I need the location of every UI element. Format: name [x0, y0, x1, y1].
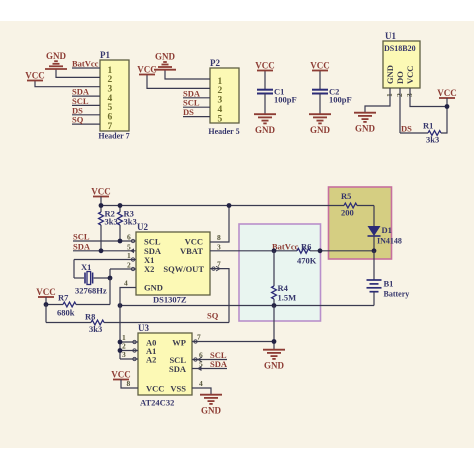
net label SCL (U2) — [73, 232, 90, 242]
resistor R6 470K — [297, 242, 374, 266]
pin number 8 (U2 VCC) — [217, 233, 221, 242]
net label SCL (P1) — [72, 96, 89, 106]
wire P1 pin7 SQ — [72, 123, 100, 125]
svg-text:680k: 680k — [57, 308, 75, 318]
pin symbol (U3 SCL) — [194, 357, 202, 362]
junction (GND rail/R4) — [272, 303, 277, 308]
pin number 2 (U2 X2) — [127, 261, 131, 270]
junction (tie/A1) — [118, 348, 123, 353]
ground GND (WP) — [263, 350, 285, 359]
pin symbol (U3 A0) — [133, 340, 136, 343]
resistor R2 3k3 — [99, 206, 118, 251]
resistor R1 3k3 — [423, 121, 441, 145]
wire SCL line — [73, 240, 136, 242]
svg-text:DS: DS — [183, 107, 194, 117]
pin number 1 (U3 A0) — [122, 333, 126, 342]
header P1 — [98, 50, 129, 141]
wire U3 A0 pin — [120, 341, 138, 343]
svg-text:7: 7 — [108, 122, 113, 132]
pin number 1 (U1 GND) — [385, 93, 394, 97]
wire P2 pin1 to GND — [165, 70, 210, 79]
junction (rail/U2 VCC) — [227, 203, 232, 208]
junction (VCC/R2) — [99, 203, 104, 208]
svg-text:B1: B1 — [384, 279, 394, 289]
pin number 3 (U1 VCC) — [405, 93, 414, 97]
svg-text:R7: R7 — [58, 293, 69, 303]
wire SQW/OUT pin 7 — [210, 269, 229, 323]
junction (R6 output) — [318, 248, 323, 253]
ground GND (U3 VSS) — [200, 395, 222, 404]
svg-text:3k3: 3k3 — [105, 217, 118, 227]
IC U1 DS18B20 — [383, 31, 420, 88]
svg-text:100pF: 100pF — [274, 95, 297, 105]
power VCC (P1) — [25, 71, 45, 81]
svg-text:8: 8 — [217, 233, 221, 242]
wire P2 pin5 DS — [183, 116, 210, 118]
wire crystal node down to R7 — [109, 278, 111, 305]
svg-text:470K: 470K — [297, 256, 317, 266]
junction (D1/battery/R6) — [372, 248, 377, 253]
svg-text:2: 2 — [127, 261, 131, 270]
pin number 5 (U2 SDA) — [127, 242, 131, 251]
svg-text:SCL: SCL — [73, 232, 90, 242]
wire P2 pin3 SDA — [183, 97, 210, 99]
pin symbol (U2 X1) — [131, 258, 134, 261]
wire U3 A2 pin — [120, 358, 138, 360]
ground GND (P2, inverted) — [154, 62, 176, 70]
ground GND (P1, inverted) — [45, 61, 67, 69]
pin number 5 (U3 SDA) — [199, 360, 203, 369]
net label SDA (U3) — [210, 359, 228, 369]
pin symbol (U2 SDA) — [130, 248, 134, 253]
wire P1 pin5 SCL — [72, 104, 100, 106]
svg-text:4: 4 — [124, 279, 128, 288]
pin number 8 (U3 VCC) — [127, 379, 131, 388]
wire P2 pin2 to VCC — [147, 75, 210, 88]
wire R1 to VCC node — [441, 107, 447, 134]
svg-text:P2: P2 — [210, 58, 220, 68]
net label BatVcc — [272, 242, 299, 252]
svg-text:32768Hz: 32768Hz — [75, 286, 107, 296]
svg-text:GND: GND — [46, 51, 67, 61]
power VCC (C1) — [255, 61, 275, 71]
wire U1 DO pin down — [399, 88, 401, 133]
ground GND (C1) — [254, 114, 276, 123]
IC U3 AT24C32 — [138, 323, 192, 408]
junction (BatVcc/R4) — [272, 248, 277, 253]
header P2 — [208, 58, 239, 136]
svg-text:5: 5 — [127, 242, 131, 251]
net label SCL (U3) — [210, 350, 227, 360]
net label BatVcc — [72, 59, 99, 69]
svg-text:VCC: VCC — [25, 71, 45, 81]
svg-text:R1: R1 — [423, 121, 433, 131]
svg-text:GND: GND — [201, 406, 222, 416]
pin number 3 (U3 A2) — [122, 350, 126, 359]
svg-text:SDA: SDA — [169, 364, 187, 374]
svg-text:7: 7 — [197, 333, 201, 342]
svg-text:3k3: 3k3 — [89, 324, 102, 334]
diode D1 IN4148 — [368, 206, 402, 251]
net label SCL (P2) — [183, 98, 200, 108]
svg-text:DS: DS — [401, 124, 412, 134]
wire U3 SDA pin 5 — [192, 368, 227, 370]
wire X2 down to crystal node — [109, 269, 111, 278]
svg-text:VCC: VCC — [36, 287, 56, 297]
pin number 3 (U2 VBAT) — [217, 242, 221, 251]
power VCC (P2) — [137, 65, 157, 75]
IC U2 DS1307Z — [136, 222, 210, 305]
pin number 7 (U3 WP) — [197, 333, 201, 342]
pin number 7 (U2 SQW) — [217, 260, 221, 269]
svg-text:VCC: VCC — [146, 384, 164, 394]
junction (WP/GND drop) — [272, 339, 277, 344]
wire U1 VCC pin to node — [410, 88, 447, 107]
svg-text:X2: X2 — [144, 264, 154, 274]
pin symbol (U3 WP) — [194, 340, 197, 343]
net label DS (U1) — [401, 124, 412, 134]
svg-text:SQ: SQ — [72, 115, 84, 125]
svg-text:R6: R6 — [301, 242, 311, 252]
svg-text:3k3: 3k3 — [124, 217, 137, 227]
ground GND (U1) — [354, 113, 376, 122]
svg-text:U3: U3 — [138, 323, 149, 333]
net label DS (P1) — [72, 105, 83, 115]
svg-text:VCC: VCC — [405, 66, 415, 84]
svg-text:6: 6 — [127, 233, 131, 242]
wire P1 pin6 DS — [72, 114, 100, 116]
ground GND (C2) — [309, 114, 331, 123]
svg-text:4: 4 — [199, 379, 203, 388]
svg-text:VCC: VCC — [310, 61, 330, 71]
net label DS (P2) — [183, 107, 194, 117]
wire DS to R1 — [400, 132, 428, 134]
pin symbol (U2 SCL) — [131, 238, 139, 243]
svg-text:IN4148: IN4148 — [377, 237, 402, 246]
svg-text:VBAT: VBAT — [180, 246, 203, 256]
junction (R2/SDA) — [99, 248, 104, 253]
wire VBAT / BatVcc line — [210, 250, 297, 252]
svg-text:GND: GND — [155, 52, 176, 62]
pin number 2 (U1 DO) — [395, 93, 404, 97]
svg-text:SQ: SQ — [207, 311, 219, 321]
svg-text:AT24C32: AT24C32 — [140, 398, 174, 408]
resistor R5 200 — [341, 191, 374, 218]
svg-text:3: 3 — [122, 350, 126, 359]
svg-text:A2: A2 — [146, 355, 156, 365]
svg-text:VCC: VCC — [255, 61, 275, 71]
power VCC (rail) — [91, 187, 111, 206]
resistor R4 1.5M — [272, 251, 297, 306]
wire P1 pin4 SDA — [72, 95, 100, 97]
junction (crystal/X2/R7) — [108, 276, 113, 281]
power VCC (U1) — [437, 88, 457, 107]
svg-text:GND: GND — [355, 124, 376, 134]
svg-text:1: 1 — [127, 251, 131, 260]
svg-text:GND: GND — [264, 361, 285, 371]
wire U3 WP pin 7 to ground — [192, 341, 274, 343]
wire X2 pin — [110, 268, 136, 270]
svg-text:X1: X1 — [81, 262, 91, 272]
svg-text:3: 3 — [217, 242, 221, 251]
capacitor C1 — [257, 71, 297, 114]
resistor R3 3k3 — [118, 206, 137, 242]
highlight box (trickle charge R5/D1) — [329, 187, 392, 259]
pin number 6 (U3 SCL) — [199, 351, 203, 360]
pin symbol (U3 A1) — [133, 349, 136, 352]
svg-text:DS1307Z: DS1307Z — [153, 295, 187, 305]
crystal X1 32768Hz — [74, 260, 110, 296]
svg-text:GND: GND — [255, 125, 276, 135]
junction (rail/R3) — [118, 203, 123, 208]
svg-text:P1: P1 — [100, 50, 110, 60]
svg-text:100pF: 100pF — [329, 95, 352, 105]
wire P1 pin2 to GND — [56, 70, 100, 78]
svg-text:Battery: Battery — [384, 290, 410, 299]
svg-text:GND: GND — [144, 283, 163, 293]
wire VCC rail — [101, 205, 344, 207]
svg-text:U2: U2 — [137, 222, 148, 232]
wire U2 GND pin 4 down — [120, 288, 136, 360]
pin symbol (U2 X2) — [131, 267, 134, 270]
svg-text:VCC: VCC — [91, 187, 111, 197]
svg-text:200: 200 — [341, 208, 354, 218]
svg-text:GND: GND — [310, 125, 331, 135]
pin symbol (U2 SQW) — [212, 266, 220, 271]
svg-text:SCL: SCL — [144, 237, 161, 247]
junction (tie/A0) — [118, 340, 123, 345]
svg-text:R5: R5 — [341, 191, 351, 201]
svg-text:Header 7: Header 7 — [98, 132, 129, 141]
svg-text:5: 5 — [218, 114, 223, 124]
wire U3 A1 pin — [120, 350, 138, 352]
wire U3 SCL pin 6 — [192, 359, 227, 361]
wire P2 pin4 SCL — [183, 106, 210, 108]
svg-text:R8: R8 — [85, 312, 95, 322]
wire SDA line — [73, 250, 136, 252]
svg-text:BatVcc: BatVcc — [72, 59, 99, 69]
svg-text:VCC: VCC — [137, 65, 157, 75]
wire P1 pin1 BatVcc — [72, 67, 100, 69]
svg-text:8: 8 — [127, 379, 131, 388]
svg-text:R4: R4 — [278, 283, 289, 293]
net label SDA (P2) — [183, 88, 201, 98]
svg-text:1.5M: 1.5M — [278, 293, 297, 303]
wire U2 VCC pin 8 to rail — [210, 206, 229, 243]
resistor R8 3k3 — [46, 312, 229, 335]
wire GND rail — [120, 305, 374, 307]
svg-text:VCC: VCC — [185, 237, 203, 247]
svg-text:U1: U1 — [385, 31, 396, 41]
resistor R7 680k — [46, 293, 110, 318]
net label SDA (P1) — [72, 87, 90, 97]
svg-text:SDA: SDA — [210, 359, 228, 369]
power VCC (U3) — [111, 370, 131, 380]
net label SDA (U2) — [73, 241, 91, 251]
pin number 6 (U2 SCL) — [127, 233, 131, 242]
svg-text:3k3: 3k3 — [426, 135, 439, 145]
junction node (U1 VCC) — [445, 104, 450, 109]
pin symbol (U3 A2) — [133, 357, 136, 360]
battery B1 — [367, 251, 410, 306]
svg-text:VSS: VSS — [170, 384, 186, 394]
wire U3 VCC pin 8 — [121, 380, 138, 389]
wire U1 GND pin to ground — [365, 88, 390, 112]
svg-text:SQW/OUT: SQW/OUT — [163, 264, 204, 274]
pin number 1 (U2 X1) — [127, 251, 131, 260]
net label SQ (SQW line) — [207, 311, 219, 321]
pin symbol (U3 SDA) — [197, 366, 202, 371]
wire GND drop (R4/WP) — [273, 306, 275, 350]
svg-text:DS18B20: DS18B20 — [384, 44, 416, 53]
pin number 4 (U2 GND) — [124, 279, 128, 288]
svg-text:VCC: VCC — [437, 88, 457, 98]
svg-text:Header 5: Header 5 — [208, 127, 239, 136]
wire X1 pin — [74, 259, 136, 261]
svg-text:VCC: VCC — [111, 370, 131, 380]
power VCC (C2) — [310, 61, 330, 71]
power VCC (R7/R8) — [36, 287, 56, 305]
junction (GND rail/U2 GND) — [118, 303, 123, 308]
pin number 2 (U3 A1) — [122, 342, 126, 351]
wire U3 VSS pin 4 to ground — [192, 388, 211, 394]
wire P1 pin3 to VCC — [35, 81, 100, 87]
pin number 4 (U3 VSS) — [199, 379, 203, 388]
junction (R3/SCL) — [118, 239, 123, 244]
junction (VCC/R7/R8) — [44, 302, 49, 307]
svg-text:WP: WP — [172, 338, 186, 348]
svg-text:DO: DO — [395, 71, 405, 84]
svg-text:GND: GND — [385, 65, 395, 84]
highlight box (battery backup R4/R6) — [239, 224, 321, 321]
svg-text:D1: D1 — [382, 225, 392, 235]
wire VCC down to R8 — [45, 305, 47, 323]
net label SQ (P1) — [72, 115, 84, 125]
svg-text:SDA: SDA — [73, 241, 91, 251]
capacitor C2 — [312, 71, 352, 114]
